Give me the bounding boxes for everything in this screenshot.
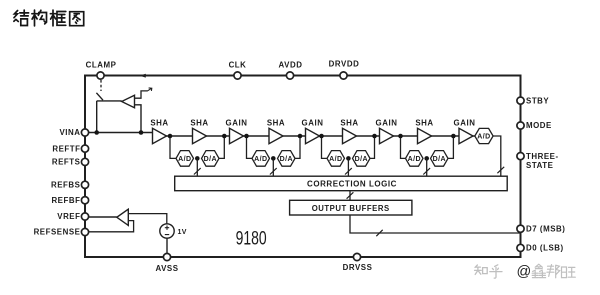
wire VINA input rail <box>85 132 156 134</box>
wire pipeline signal path <box>166 135 475 137</box>
ADC A/D 3 <box>327 151 345 167</box>
ADC U1 final A/D <box>475 128 493 143</box>
svg-text:REFBS: REFBS <box>51 181 81 190</box>
amp SHA 5 <box>418 128 432 143</box>
bus wire pair 4 to correction logic <box>426 158 428 176</box>
svg-text:SHA: SHA <box>150 119 168 128</box>
node tap 4 <box>398 134 403 139</box>
node between A/D 2 and D/A 2 <box>271 156 276 161</box>
node inject 1 <box>222 134 227 139</box>
svg-text:GAIN: GAIN <box>302 119 324 128</box>
pin VINA <box>81 129 88 136</box>
voltage source 1V <box>160 224 174 238</box>
svg-text:D0 (LSB): D0 (LSB) <box>526 244 564 253</box>
svg-text:VINA: VINA <box>59 128 80 137</box>
node tap 3 <box>319 134 324 139</box>
svg-text:DRVSS: DRVSS <box>343 263 373 272</box>
bus slash pair 2 <box>270 168 277 174</box>
bus slash final A/D <box>497 167 504 173</box>
svg-text:A/D: A/D <box>477 133 490 140</box>
svg-text:A/D: A/D <box>408 156 421 163</box>
svg-text:GAIN: GAIN <box>376 119 398 128</box>
pin D0 (LSB) <box>517 244 524 251</box>
svg-text:AVSS: AVSS <box>155 264 178 273</box>
watermark 知乎 @鑫邦旺 <box>475 265 502 278</box>
pin D7 (MSB) <box>517 225 524 232</box>
wire D/A 4 inject <box>448 136 453 158</box>
bus wire pair 1 to correction logic <box>196 158 198 176</box>
node between A/D 1 and D/A 1 <box>195 156 200 161</box>
ADC A/D 1 <box>176 151 194 167</box>
pin REFBS <box>81 181 88 188</box>
outer border of 9180 block <box>85 76 521 258</box>
stage 2 tap wire <box>247 136 253 158</box>
op-amp VREF buffer <box>117 209 129 225</box>
amp GAIN 4 <box>459 128 473 143</box>
node inject 2 <box>298 134 303 139</box>
ADC A/D 4 <box>406 151 424 167</box>
wire D/A 3 inject <box>370 136 375 158</box>
node between A/D 4 and D/A 4 <box>424 156 429 161</box>
svg-text:REFBF: REFBF <box>51 196 80 205</box>
amp GAIN 1 <box>230 128 244 143</box>
pin DRVSS <box>353 253 360 260</box>
amp SHA 3 <box>269 128 283 143</box>
wire clamp level input with arrow <box>135 91 148 98</box>
svg-text:SHA: SHA <box>340 119 358 128</box>
bus wire pair 3 to correction logic <box>347 158 349 176</box>
node on VINA rail at switch <box>94 130 99 135</box>
pin STBY <box>517 97 524 104</box>
svg-text:MODE: MODE <box>526 121 552 130</box>
stage 1 tap wire <box>170 136 176 158</box>
svg-text:A/D: A/D <box>178 156 191 163</box>
bus slash output <box>376 230 382 236</box>
stage 4 tap wire <box>401 136 406 158</box>
svg-text:STBY: STBY <box>526 96 549 105</box>
bus slash pair 4 <box>423 168 430 174</box>
pin THREE-STATE <box>517 153 524 160</box>
arrowhead on top rail <box>139 74 146 78</box>
svg-text:A/D: A/D <box>254 156 267 163</box>
svg-text:9180: 9180 <box>236 228 267 250</box>
bus wire output buffers to D7-D0 <box>350 215 521 233</box>
svg-text:A/D: A/D <box>329 156 342 163</box>
svg-text:THREE-: THREE- <box>526 152 559 161</box>
bus wire pair 2 to correction logic <box>272 158 274 176</box>
pin REFTF <box>81 145 88 152</box>
node tap 1 <box>168 134 173 139</box>
DAC D/A 3 <box>353 151 371 167</box>
pin AVSS <box>163 253 170 260</box>
pin REFBF <box>81 197 88 204</box>
wire D/A 2 inject <box>295 136 300 158</box>
clamp switch blade <box>96 93 103 100</box>
svg-text:D/A: D/A <box>204 156 217 163</box>
svg-text:REFTF: REFTF <box>52 144 80 153</box>
bus slash pair 1 <box>194 168 201 174</box>
svg-text:CLAMP: CLAMP <box>86 61 117 70</box>
pin REFTS <box>81 158 88 165</box>
amp SHA 2 <box>193 128 207 143</box>
title 结构框图 <box>14 10 84 26</box>
svg-text:DRVDD: DRVDD <box>329 60 360 69</box>
wire clamp amp feedback to VINA <box>135 105 142 133</box>
wire D/A 1 inject <box>219 136 224 158</box>
wire switch to VINA node <box>97 101 122 133</box>
amp GAIN 3 <box>380 128 394 143</box>
node tap 2 <box>244 134 249 139</box>
output buffers block <box>290 200 412 215</box>
ADC A/D 2 <box>252 151 270 167</box>
svg-text:REFTS: REFTS <box>52 158 81 167</box>
svg-text:REFSENSE: REFSENSE <box>34 228 81 237</box>
svg-text:D/A: D/A <box>280 156 293 163</box>
pin VREF <box>81 213 88 220</box>
bus slash corr-buffers <box>347 192 354 198</box>
wire VREF to buffer <box>85 216 117 218</box>
pin MODE <box>517 122 524 129</box>
bus wire correction logic to output buffers <box>349 191 351 201</box>
pin REFSENSE <box>81 228 88 235</box>
svg-text:D7 (MSB): D7 (MSB) <box>526 224 565 233</box>
svg-text:SHA: SHA <box>190 119 208 128</box>
amp SHA 1 <box>153 128 167 143</box>
svg-text:CORRECTION LOGIC: CORRECTION LOGIC <box>307 179 397 188</box>
pin CLAMP <box>97 72 104 79</box>
node between A/D 3 and D/A 3 <box>346 156 351 161</box>
svg-text:D/A: D/A <box>355 156 368 163</box>
wire final A/D to correction logic <box>493 136 501 176</box>
DAC D/A 4 <box>431 151 449 167</box>
DAC D/A 1 <box>202 151 220 167</box>
svg-text:GAIN: GAIN <box>226 119 248 128</box>
wire 1V to AVSS <box>166 238 168 257</box>
node on VINA rail at amp feedback <box>139 130 144 135</box>
DAC D/A 2 <box>278 151 296 167</box>
pin DRVDD <box>340 72 347 79</box>
svg-text:GAIN: GAIN <box>454 119 476 128</box>
svg-text:@: @ <box>517 264 532 280</box>
svg-text:OUTPUT BUFFERS: OUTPUT BUFFERS <box>312 204 390 213</box>
correction logic block <box>175 176 508 191</box>
node inject 4 <box>451 134 456 139</box>
bus slash pair 3 <box>345 168 352 174</box>
svg-text:VREF: VREF <box>57 212 80 221</box>
svg-text:SHA: SHA <box>415 119 433 128</box>
amp GAIN 2 <box>306 128 320 143</box>
stage 3 tap wire <box>322 136 328 158</box>
wire 1V to buffer input <box>128 214 167 224</box>
pin AVDD <box>286 72 293 79</box>
wire REFSENSE feedback <box>85 221 134 232</box>
clamp amp A1 <box>122 95 135 108</box>
svg-text:D/A: D/A <box>433 156 446 163</box>
svg-text:AVDD: AVDD <box>279 61 303 70</box>
svg-text:STATE: STATE <box>526 161 553 170</box>
pin CLK <box>234 72 241 79</box>
amp SHA 4 <box>343 128 357 143</box>
svg-text:SHA: SHA <box>267 119 285 128</box>
svg-text:1V: 1V <box>178 229 187 236</box>
svg-text:CLK: CLK <box>229 61 247 70</box>
clamp control dashed wire <box>100 80 102 91</box>
node inject 3 <box>372 134 377 139</box>
